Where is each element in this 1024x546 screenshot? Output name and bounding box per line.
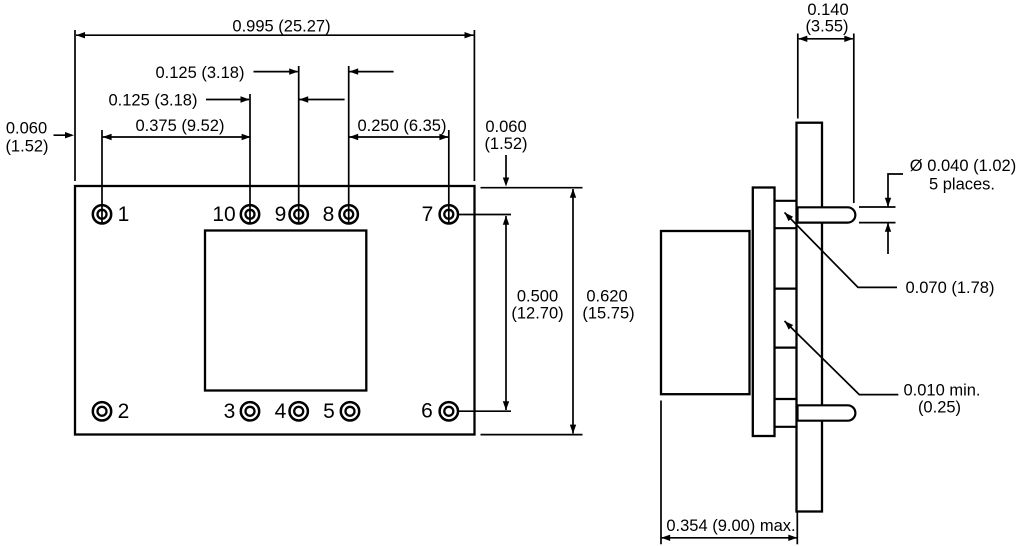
extension line 0.140 left bbox=[797, 34, 799, 119]
side view seal strip line 2 bbox=[775, 227, 797, 229]
dimension 0.500 top arrow bbox=[503, 216, 509, 225]
svg-text:(15.75): (15.75) bbox=[582, 305, 634, 323]
dimension 0.354 line bbox=[661, 537, 797, 539]
dimension 0.125 lower tail right bbox=[299, 99, 344, 101]
dimension 0.354 left arrow bbox=[661, 535, 670, 541]
dimension 0.250 line bbox=[349, 136, 448, 138]
lead diameter leader elbow bbox=[888, 174, 903, 207]
svg-text:Ø 0.040 (1.02): Ø 0.040 (1.02) bbox=[910, 157, 1016, 175]
pin 1 pad bbox=[93, 205, 111, 223]
dimension 0.375 left arrow bbox=[103, 134, 112, 140]
leader 0.070 line bbox=[785, 213, 898, 288]
dimension 0.620 line bbox=[572, 189, 574, 434]
svg-text:0.010 min.: 0.010 min. bbox=[903, 382, 980, 400]
pin 7 pad bbox=[440, 205, 458, 223]
svg-text:5 places.: 5 places. bbox=[929, 176, 995, 194]
extension line bottom edge right bbox=[481, 434, 583, 436]
extension line pin10 bbox=[249, 94, 251, 225]
extension line top edge right bbox=[481, 187, 583, 189]
svg-text:(0.25): (0.25) bbox=[918, 399, 961, 417]
side view board plate bbox=[797, 123, 823, 512]
extension line pin1 bbox=[101, 130, 103, 225]
side view seal strip line 6 bbox=[775, 426, 797, 428]
svg-text:(3.55): (3.55) bbox=[805, 18, 848, 36]
extension line pin7 right bbox=[458, 214, 511, 216]
svg-text:6: 6 bbox=[421, 400, 433, 423]
dimension 0.354 right arrow bbox=[788, 535, 797, 541]
svg-text:0.060: 0.060 bbox=[485, 118, 526, 136]
dimension 0.250 left arrow bbox=[349, 134, 358, 140]
pin 2 pad bbox=[93, 402, 111, 420]
svg-text:7: 7 bbox=[422, 203, 434, 226]
svg-text:2: 2 bbox=[118, 400, 130, 423]
svg-text:0.250 (6.35): 0.250 (6.35) bbox=[358, 117, 447, 135]
dimension 0.250 right arrow bbox=[439, 134, 448, 140]
side view seal strip line 3 bbox=[775, 288, 797, 290]
extension line pin6 right bbox=[458, 410, 511, 412]
dimension 0.375 right arrow bbox=[242, 134, 251, 140]
dimension 0.995 left arrow bbox=[76, 32, 85, 38]
svg-text:(1.52): (1.52) bbox=[5, 138, 48, 156]
lead diameter lower extension bbox=[859, 222, 896, 224]
extension line pin7 bbox=[448, 130, 450, 225]
front view center cavity bbox=[205, 231, 366, 391]
svg-text:9: 9 bbox=[275, 203, 287, 226]
dimension 0.125 upper leader left bbox=[254, 71, 298, 73]
leader 0.010 line bbox=[785, 321, 899, 395]
dimension 0.125 upper left arrow bbox=[289, 68, 298, 74]
svg-text:1: 1 bbox=[118, 203, 130, 226]
pin 4 pad bbox=[290, 402, 308, 420]
pin 3 pad bbox=[241, 402, 259, 420]
svg-text:10: 10 bbox=[212, 203, 235, 226]
dimension 0.620 top arrow bbox=[570, 189, 576, 198]
svg-text:5: 5 bbox=[323, 400, 335, 423]
svg-text:0.354 (9.00) max.: 0.354 (9.00) max. bbox=[666, 517, 795, 535]
dimension 0.995 right arrow bbox=[465, 32, 474, 38]
svg-text:0.620: 0.620 bbox=[586, 288, 627, 306]
lead diameter upper extension bbox=[859, 206, 896, 208]
extension line 0.995 left bbox=[74, 30, 76, 181]
svg-text:0.140: 0.140 bbox=[807, 1, 848, 19]
dimension 0.125 lower right arrow bbox=[299, 96, 308, 102]
extension line pin9 bbox=[298, 66, 300, 225]
svg-text:(12.70): (12.70) bbox=[511, 305, 563, 323]
leader 0.070 arrowhead bbox=[782, 210, 793, 221]
dimension 0.060 right arrowhead bbox=[503, 178, 509, 187]
dimension 0.140 right arrow bbox=[844, 36, 853, 42]
svg-text:8: 8 bbox=[323, 203, 335, 226]
pin 9 pad bbox=[290, 205, 308, 223]
side view seal strip line 5 bbox=[775, 398, 797, 400]
svg-text:0.060: 0.060 bbox=[6, 120, 47, 138]
svg-text:0.375 (9.52): 0.375 (9.52) bbox=[136, 117, 225, 135]
side view seal strip line 4 bbox=[775, 347, 797, 349]
svg-text:(1.52): (1.52) bbox=[484, 135, 527, 153]
lead diameter lower arrow line bbox=[887, 223, 889, 254]
leader 0.010 arrowhead bbox=[782, 319, 793, 330]
dimension 0.125 lower left arrow bbox=[241, 96, 250, 102]
pin 10 pad bbox=[241, 205, 259, 223]
svg-text:0.995 (25.27): 0.995 (25.27) bbox=[232, 18, 330, 36]
svg-text:3: 3 bbox=[224, 400, 236, 423]
extension line 0.140 right bbox=[853, 34, 855, 204]
dimension 0.375 line bbox=[103, 136, 251, 138]
side view top lead bbox=[798, 207, 856, 222]
dimension 0.060 right arrow line bbox=[505, 155, 507, 184]
side view seal strip line 1 bbox=[775, 200, 797, 202]
dimension 0.500 bottom arrow bbox=[503, 401, 509, 410]
svg-text:0.125 (3.18): 0.125 (3.18) bbox=[109, 92, 198, 110]
side view body bbox=[661, 231, 750, 394]
dimension 0.060 left arrow line bbox=[54, 134, 73, 136]
svg-text:4: 4 bbox=[275, 400, 287, 423]
dimension 0.995 line bbox=[76, 34, 474, 36]
dimension 0.125 lower leader left bbox=[206, 99, 249, 101]
extension line pin8 bbox=[348, 66, 350, 225]
dimension 0.125 upper tail right bbox=[349, 71, 393, 73]
pin 6 pad bbox=[440, 402, 458, 420]
extension line 0.354 left bbox=[660, 401, 662, 545]
dimension 0.140 line bbox=[799, 38, 853, 40]
pin 5 pad bbox=[341, 402, 359, 420]
side view bottom lead bbox=[798, 405, 856, 420]
extension line 0.354 right bbox=[796, 513, 798, 545]
dimension 0.500 line bbox=[505, 216, 507, 410]
dimension 0.140 left arrow bbox=[798, 36, 807, 42]
front view package outline bbox=[75, 186, 475, 435]
extension line 0.995 right bbox=[473, 30, 475, 181]
lead diameter upper arrow bbox=[885, 198, 891, 207]
pin 8 pad bbox=[340, 205, 358, 223]
dimension 0.060 left arrowhead bbox=[65, 132, 74, 138]
svg-text:0.500: 0.500 bbox=[517, 288, 558, 306]
lead diameter lower arrow bbox=[885, 223, 891, 232]
svg-text:0.125 (3.18): 0.125 (3.18) bbox=[156, 64, 245, 82]
svg-text:0.070 (1.78): 0.070 (1.78) bbox=[906, 279, 995, 297]
side view mounting flange bbox=[753, 188, 775, 437]
dimension 0.620 bottom arrow bbox=[570, 425, 576, 434]
dimension 0.125 upper right arrow bbox=[349, 68, 358, 74]
